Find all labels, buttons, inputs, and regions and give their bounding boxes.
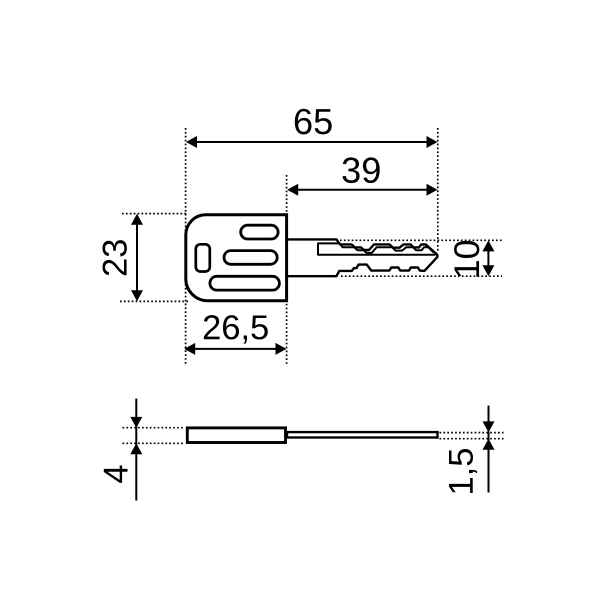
extension line 10 bottom bbox=[341, 275, 502, 277]
key blade groove rectangle and middle line bbox=[318, 243, 436, 254]
dimension 23 top arrow bbox=[131, 214, 143, 225]
dimension 39 label bbox=[343, 157, 380, 183]
dimension 4 line bbox=[135, 399, 137, 501]
dimension 39 line bbox=[291, 189, 434, 191]
extension line 23 bottom bbox=[120, 300, 188, 302]
dimension 10 top arrow bbox=[482, 240, 494, 251]
extension line 65 and 39 right bbox=[437, 128, 439, 252]
extension line 1,5 top bbox=[440, 432, 504, 434]
dimension 10 label bbox=[454, 241, 479, 277]
extension line 4 bottom bbox=[123, 442, 184, 444]
extension line 65 left bbox=[185, 128, 187, 366]
dimension 65 right arrow bbox=[427, 136, 438, 148]
dimension 10 bottom arrow bbox=[482, 265, 494, 276]
dimension 26,5 right arrow bbox=[276, 343, 287, 355]
dimension 1,5 bottom arrow bbox=[483, 439, 495, 450]
key blade inner groove bitting line bbox=[340, 243, 434, 253]
key head small slot bbox=[196, 244, 210, 271]
dimension 39 right arrow bbox=[427, 184, 438, 196]
key head bottom pill slot bbox=[210, 276, 280, 290]
dimension 65 left arrow bbox=[186, 136, 197, 148]
extension line 39 left and 26,5 right bbox=[286, 175, 288, 366]
dimension 23 label bbox=[103, 240, 127, 275]
dimension 4 top arrow bbox=[130, 417, 142, 428]
dimension 1,5 top arrow bbox=[483, 421, 495, 432]
dimension 23 line bbox=[136, 217, 138, 298]
dimension 26,5 left arrow bbox=[184, 343, 195, 355]
extension line 4 top bbox=[123, 427, 184, 429]
dimension 4 label bbox=[104, 466, 128, 483]
key head middle pill slot bbox=[224, 251, 277, 265]
dimension 4 bottom arrow bbox=[130, 443, 142, 454]
dimension 39 left arrow bbox=[287, 184, 298, 196]
dimension 65 line bbox=[190, 141, 434, 143]
side view blade bbox=[287, 432, 438, 437]
extension line 23 top bbox=[122, 213, 188, 215]
dimension 10 line bbox=[487, 243, 489, 274]
key blade outer profile with bitting bbox=[287, 239, 438, 276]
extension line 1,5 bottom bbox=[440, 438, 504, 440]
dimension 26,5 label bbox=[204, 315, 268, 344]
dimension 23 bottom arrow bbox=[131, 290, 143, 301]
dimension 26,5 line bbox=[188, 348, 283, 350]
side view head bar bbox=[187, 428, 285, 443]
key head top pill slot bbox=[241, 225, 278, 239]
dimension 1,5 label bbox=[449, 449, 477, 493]
dimension 1,5 line bbox=[488, 406, 490, 493]
dimension 65 label bbox=[295, 109, 332, 135]
extension line 10 top bbox=[340, 239, 502, 241]
key head outline bbox=[186, 215, 287, 301]
